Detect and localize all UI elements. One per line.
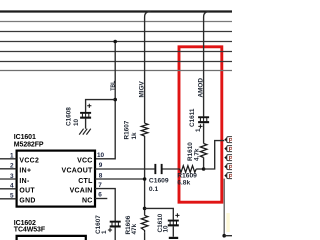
svg-text:VCC: VCC	[77, 158, 93, 165]
C1610 plus sign	[175, 213, 179, 217]
ground bar under C1610	[169, 237, 178, 239]
capacitor C1610	[168, 220, 179, 227]
svg-text:6: 6	[98, 192, 102, 199]
node junction AMOD/R1609	[202, 167, 206, 171]
wire flag P5 drop	[223, 179, 225, 236]
svg-text:VCC2: VCC2	[19, 158, 39, 165]
svg-text:3: 3	[10, 173, 14, 180]
svg-text:IC1601: IC1601	[14, 134, 36, 141]
IC1601 box	[17, 151, 95, 207]
svg-text:P: P	[229, 147, 232, 153]
capacitor C1609	[154, 164, 162, 174]
wire pin6 stub	[95, 198, 107, 200]
svg-text:1k: 1k	[131, 132, 138, 140]
C1608 plus sign	[87, 104, 91, 108]
wire bus line 7	[0, 70, 232, 72]
svg-text:4.7k: 4.7k	[193, 148, 200, 161]
wire pin9 VCAOUT run	[95, 168, 180, 170]
svg-text:OUT: OUT	[19, 188, 35, 195]
connector flag P3	[224, 155, 233, 162]
wire pin5 stub	[0, 198, 17, 200]
resistor R1609	[180, 166, 196, 173]
svg-text:10: 10	[163, 225, 170, 233]
wire pin1 stub	[0, 158, 17, 160]
capacitor C1607	[110, 221, 121, 228]
svg-text:TBL: TBL	[110, 80, 116, 91]
svg-text:NC: NC	[82, 198, 93, 205]
IC1602 box	[17, 236, 86, 240]
wire pin2 stub	[0, 168, 17, 170]
wire AMOD vertical branch	[204, 12, 210, 170]
svg-text:P: P	[229, 138, 232, 144]
svg-text:C1609: C1609	[149, 178, 169, 185]
C1611 plus sign	[198, 124, 202, 128]
svg-text:1: 1	[101, 230, 108, 234]
wire pin8 CTL run	[95, 178, 145, 180]
svg-text:10: 10	[97, 152, 105, 159]
svg-text:6.8k: 6.8k	[177, 179, 190, 186]
wire VCC pin10 riser	[95, 42, 115, 159]
node junction pin8/MIGV	[143, 177, 147, 181]
svg-text:P: P	[229, 165, 232, 171]
ground chassis under C1608	[79, 129, 91, 135]
C1607 plus sign	[108, 228, 112, 232]
resistor R1607	[141, 123, 148, 136]
wire bus line 2	[0, 21, 232, 23]
wire pin7 VCAIN run	[95, 189, 115, 240]
svg-text:R1607: R1607	[124, 120, 131, 139]
svg-text:P: P	[229, 156, 232, 162]
wire pin3 stub	[0, 178, 17, 180]
node junction bus4/riser	[113, 40, 117, 44]
svg-text:R1609: R1609	[177, 172, 197, 179]
capacitor C1611	[198, 116, 209, 123]
svg-text:10: 10	[73, 118, 80, 126]
svg-text:CTL: CTL	[78, 178, 93, 185]
svg-text:C1608: C1608	[66, 107, 73, 126]
wire bus line 6	[0, 61, 232, 63]
wire bus line 3	[0, 31, 232, 33]
svg-text:4: 4	[10, 183, 14, 190]
svg-text:IN-: IN-	[19, 178, 30, 185]
svg-text:9: 9	[99, 162, 103, 169]
wire pin4 stub	[0, 188, 17, 190]
svg-text:VCAOUT: VCAOUT	[62, 168, 94, 175]
wire C1608 branch	[86, 100, 116, 129]
svg-text:47k: 47k	[131, 223, 138, 234]
connector flag P2	[224, 146, 233, 153]
highlight yellow hint	[226, 213, 229, 232]
svg-text:0.1: 0.1	[149, 186, 159, 193]
svg-text:P: P	[229, 174, 232, 180]
highlight red box	[179, 47, 222, 202]
wire MIGV vertical branch	[145, 12, 151, 240]
resistor R1606	[141, 215, 148, 232]
node junction C1608 tap	[113, 98, 117, 102]
node junction MIGV/C1610	[143, 207, 147, 211]
wire bus line 4	[0, 41, 232, 43]
svg-text:IN+: IN+	[19, 168, 31, 175]
capacitor C1608	[80, 112, 91, 119]
wire node to connector flag	[204, 141, 225, 169]
wire bottom right exit	[224, 235, 232, 237]
connector flag P4	[224, 164, 233, 171]
svg-text:C1611: C1611	[189, 108, 196, 127]
svg-text:1: 1	[195, 128, 202, 132]
node junction bottom right	[222, 234, 226, 238]
wire bus line 1	[0, 10, 232, 12]
svg-text:MIGV: MIGV	[139, 80, 146, 97]
wire bus line 5	[0, 51, 232, 53]
connector flag P5	[224, 173, 233, 180]
resistor R1610	[200, 144, 207, 158]
svg-text:7: 7	[98, 182, 102, 189]
svg-text:2: 2	[10, 163, 14, 170]
svg-text:TC4W53F: TC4W53F	[14, 227, 46, 234]
svg-text:GND: GND	[19, 198, 35, 205]
svg-text:AMOD: AMOD	[197, 78, 204, 98]
svg-text:M5282FP: M5282FP	[14, 142, 44, 149]
svg-text:1: 1	[10, 153, 14, 160]
svg-text:5: 5	[10, 193, 14, 200]
wire R1609 to node	[196, 168, 203, 170]
connector flag P1	[224, 137, 233, 144]
svg-text:VCAIN: VCAIN	[70, 188, 93, 195]
wire C1610 branch	[145, 208, 174, 236]
